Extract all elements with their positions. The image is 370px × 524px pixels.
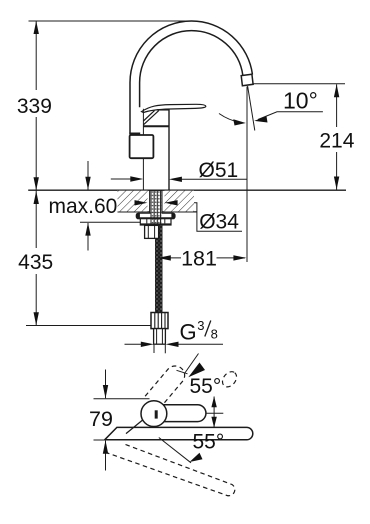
svg-text:55°: 55° [190,375,222,398]
svg-text:339: 339 [17,95,52,118]
svg-text:Ø34: Ø34 [199,210,239,233]
svg-text:max.60: max.60 [49,195,118,218]
svg-text:79: 79 [89,407,113,431]
svg-text:55°: 55° [193,430,225,453]
svg-text:435: 435 [18,251,53,274]
svg-text:214: 214 [319,129,354,152]
svg-text:Ø51: Ø51 [199,159,239,182]
svg-text:10°: 10° [283,87,318,113]
svg-text:G: G [180,320,197,345]
svg-text:8: 8 [211,327,218,342]
svg-text:3: 3 [197,318,204,333]
svg-text:181: 181 [181,247,217,271]
